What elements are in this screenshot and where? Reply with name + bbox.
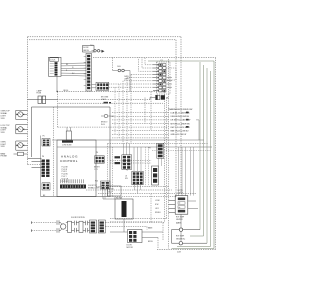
svg-text:MTR BU-11 DRIVE BK: MTR BU-11 DRIVE BK: [171, 123, 191, 125]
svg-text:DLB: DLB: [117, 66, 120, 68]
svg-text:GND GY-17 NO W: GND GY-17 NO W: [171, 134, 187, 136]
svg-text:LATCH: LATCH: [178, 192, 184, 195]
svg-text:LIGHT: LIGHT: [124, 79, 129, 81]
svg-text:HOT SURF: HOT SURF: [176, 217, 184, 219]
svg-text:BR BK-9: BR BK-9: [101, 122, 107, 124]
svg-text:SW BU: SW BU: [155, 212, 161, 214]
svg-text:PROBE: PROBE: [1, 156, 8, 158]
svg-text:UNLK N W-14 SW BU: UNLK N W-14 SW BU: [171, 116, 190, 118]
svg-text:DOOR POSITION: DOOR POSITION: [71, 217, 85, 219]
svg-text:FAN OR-16 COM BU: FAN OR-16 COM BU: [171, 130, 189, 133]
svg-text:W-10: W-10: [101, 124, 105, 126]
svg-text:IGNITER: IGNITER: [176, 219, 183, 221]
svg-text:BR OVEN: BR OVEN: [101, 97, 109, 99]
svg-text:BK-5: BK-5: [109, 191, 113, 193]
svg-text:P10: P10: [95, 181, 98, 183]
svg-text:BK W R: BK W R: [94, 167, 101, 169]
svg-text:HOT SURF: HOT SURF: [176, 236, 184, 238]
svg-text:MOTOR: MOTOR: [127, 247, 134, 249]
svg-text:ANALOG: ANALOG: [61, 155, 78, 159]
svg-text:P6: P6: [42, 156, 44, 158]
svg-text:CONTROL: CONTROL: [60, 159, 78, 163]
svg-text:P4: P4: [96, 152, 98, 154]
svg-text:TRANSMISSION DRIVE SW: TRANSMISSION DRIVE SW: [168, 108, 192, 111]
svg-text:N W: N W: [155, 204, 159, 206]
svg-text:P5: P5: [43, 135, 45, 137]
svg-text:LIGHT: LIGHT: [101, 99, 106, 101]
svg-text:SIGNAL LIGHT: SIGNAL LIGHT: [88, 186, 100, 189]
svg-text:ab: ab: [179, 207, 181, 209]
svg-text:BROIL: BROIL: [148, 241, 153, 243]
svg-text:LATCH: LATCH: [83, 49, 89, 52]
svg-text:CONV ELEM: CONV ELEM: [62, 144, 72, 146]
svg-text:P8: P8: [149, 147, 151, 149]
svg-text:4-5W: 4-5W: [177, 251, 181, 253]
svg-text:ab: ab: [179, 203, 181, 205]
svg-text:DR SW: DR SW: [109, 189, 115, 191]
svg-text:P2: P2: [126, 170, 128, 172]
svg-text:LOCK: LOCK: [50, 60, 56, 62]
svg-text:DOOR: DOOR: [83, 47, 89, 49]
svg-text:1 2 3: 1 2 3: [94, 169, 98, 171]
